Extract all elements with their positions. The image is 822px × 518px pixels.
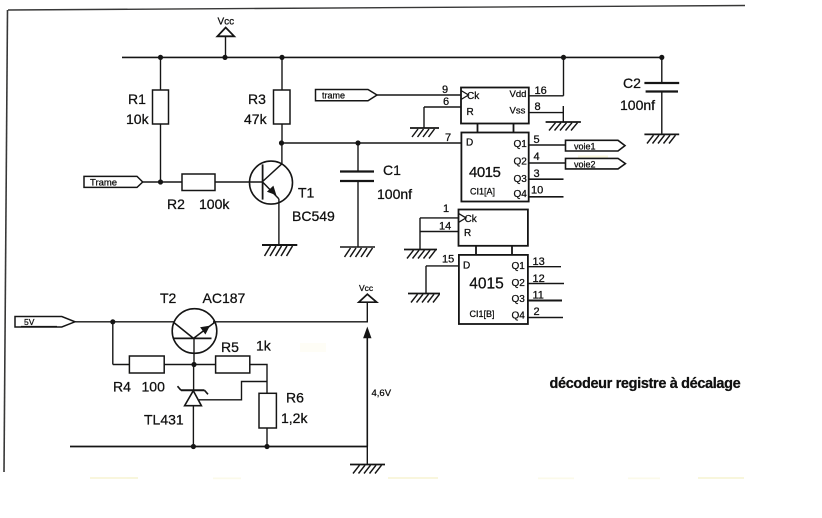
svg-text:R2: R2 [167, 196, 185, 212]
svg-text:100k: 100k [199, 196, 230, 212]
svg-text:voie1: voie1 [574, 142, 596, 152]
ground under T1 [262, 245, 297, 256]
svg-text:CI1[B]: CI1[B] [470, 309, 495, 319]
svg-text:Q1: Q1 [512, 261, 526, 272]
wire 5V to T2 [75, 321, 174, 323]
svg-text:1k: 1k [256, 338, 272, 354]
wire R5 to R6 [250, 365, 267, 394]
IC U1A control box (4015 clock/reset/power) [461, 88, 529, 133]
resistor R4 [129, 356, 164, 373]
resistor R1 [153, 57, 169, 182]
svg-text:6: 6 [443, 96, 449, 108]
wire Vcc rail [122, 56, 662, 58]
wire R4 to R5 [164, 364, 215, 366]
capacitor C2 [644, 57, 679, 134]
svg-text:16: 16 [535, 85, 547, 97]
wire pin 14 R (U1B) to ground [420, 218, 459, 250]
svg-text:4,6V: 4,6V [372, 388, 392, 399]
svg-text:Vcc: Vcc [218, 17, 235, 28]
wire pin 4 Q2 to voie2 [529, 162, 566, 164]
ground under C2 [644, 134, 679, 143]
svg-text:D: D [466, 138, 473, 149]
svg-text:Q4: Q4 [512, 311, 526, 322]
input flag trame (top) [316, 90, 378, 101]
svg-text:R4: R4 [113, 379, 131, 395]
wire pin 13 Q1 stub [528, 266, 561, 268]
svg-text:3: 3 [534, 168, 540, 180]
svg-text:TL431: TL431 [144, 412, 184, 428]
wire pin 6 to ground [424, 107, 461, 128]
svg-text:décodeur registre à décalage: décodeur registre à décalage [550, 376, 741, 392]
resistor R3 [274, 57, 291, 143]
svg-text:Vss: Vss [510, 106, 526, 117]
svg-text:14: 14 [439, 221, 451, 233]
svg-text:4015: 4015 [469, 276, 503, 293]
svg-text:Vdd: Vdd [510, 89, 527, 100]
svg-text:1: 1 [443, 203, 449, 215]
svg-text:C2: C2 [623, 75, 641, 91]
power symbol Vcc (bottom) [359, 283, 377, 302]
wire T2 collector to Vcc corner [213, 303, 367, 322]
svg-text:T2: T2 [160, 290, 177, 306]
resistor R5 [216, 356, 250, 373]
svg-text:BC549: BC549 [292, 208, 335, 224]
ground pin 15 [408, 294, 440, 303]
wire bottom rail to ground [366, 447, 368, 465]
ground bottom right [350, 465, 385, 474]
svg-text:Vcc: Vcc [359, 283, 374, 293]
junction rail/R3 [279, 55, 284, 60]
svg-text:D: D [463, 261, 470, 272]
svg-text:Q2: Q2 [514, 157, 528, 168]
wire bottom return rail [70, 446, 367, 448]
svg-text:47k: 47k [244, 111, 268, 127]
svg-text:8: 8 [535, 101, 541, 113]
ground pins 1/14 [404, 250, 437, 259]
svg-text:R: R [467, 107, 474, 118]
svg-text:1,2k: 1,2k [281, 410, 308, 426]
wire pin 12 Q2 stub [528, 283, 564, 285]
svg-text:Q1: Q1 [514, 139, 528, 150]
svg-text:CI1[A]: CI1[A] [470, 187, 495, 197]
svg-text:Trame: Trame [90, 177, 117, 188]
wire pin 10 Q4 stub [529, 196, 564, 198]
junction TL431/bottom rail [191, 444, 196, 449]
junction T1 collector node [279, 140, 284, 145]
junction rail/C2 [659, 55, 664, 60]
wire pin 3 Q3 stub [529, 178, 564, 180]
resistor R2 [182, 174, 215, 191]
svg-text:9: 9 [442, 84, 448, 96]
output flag voie1 [566, 140, 626, 151]
svg-text:100: 100 [142, 379, 166, 395]
svg-text:Q2: Q2 [512, 278, 526, 289]
svg-text:5V: 5V [24, 317, 35, 327]
wire R4 branch [113, 322, 130, 365]
svg-text:R1: R1 [128, 91, 146, 107]
IC U1B control box (4015 clock/reset) [459, 210, 528, 255]
junction rail/pin16 [561, 55, 566, 60]
svg-text:Ck: Ck [465, 214, 478, 225]
wire R2 to T1 base [215, 181, 262, 183]
wire pin 15 D (U1B) to ground [426, 266, 459, 294]
power symbol Vcc (top) [217, 17, 234, 58]
output flag voie2 [566, 158, 626, 169]
svg-text:100nf: 100nf [377, 186, 412, 202]
svg-text:100nf: 100nf [620, 97, 655, 113]
svg-text:T1: T1 [298, 185, 315, 201]
wire pin 5 Q1 to voie1 [529, 144, 566, 146]
IC U1B data box (4015 D / Q outputs) [459, 255, 528, 324]
wire trame to pin 9 [377, 94, 461, 96]
svg-text:10k: 10k [126, 111, 150, 127]
capacitor C1 [340, 143, 374, 247]
ground pin 6 [410, 128, 439, 137]
svg-text:AC187: AC187 [203, 290, 246, 306]
junction rail/R1 [158, 55, 163, 60]
svg-text:Q4: Q4 [514, 189, 528, 200]
wire TL431 reference to R5/R6 node [199, 382, 267, 400]
junction R1/Trame wire [158, 179, 163, 184]
ground pin 8 [546, 122, 581, 131]
junction rail/Vcc [222, 55, 227, 60]
wire Trame to R2 [143, 181, 182, 183]
svg-text:R: R [464, 228, 471, 239]
junction R6/bottom rail [264, 444, 269, 449]
IC U1A data box (4015 D / Q outputs) [461, 133, 528, 202]
wire pin 16 Vdd to rail [529, 57, 564, 95]
transistor T2 AC187 [172, 309, 217, 365]
wire pin 11 Q3 stub [528, 300, 562, 302]
svg-text:15: 15 [442, 254, 454, 266]
svg-text:7: 7 [445, 132, 451, 144]
transistor T1 BC549 [250, 143, 293, 245]
input flag Trame (left) [84, 176, 143, 188]
svg-text:voie2: voie2 [574, 159, 596, 169]
svg-text:R6: R6 [286, 390, 304, 406]
svg-text:4015: 4015 [469, 164, 501, 181]
svg-text:R3: R3 [248, 91, 266, 107]
junction T2 base node [191, 362, 196, 367]
input flag 5V [15, 317, 75, 328]
svg-text:13: 13 [533, 256, 545, 268]
svg-text:R5: R5 [221, 339, 239, 355]
svg-text:10: 10 [531, 185, 543, 197]
resistor R6 [259, 393, 276, 446]
svg-text:12: 12 [533, 273, 545, 285]
junction 5V/R4 branch [110, 319, 115, 324]
svg-text:2: 2 [534, 306, 540, 318]
svg-text:trame: trame [322, 90, 345, 100]
svg-text:Q3: Q3 [512, 294, 526, 305]
ground under C1 [340, 247, 375, 257]
wire pin 8 Vss to ground [529, 106, 564, 122]
measurement arrow 4,6V [363, 327, 371, 447]
svg-text:4: 4 [534, 151, 540, 163]
svg-text:Ck: Ck [467, 91, 480, 102]
wire pin 2 Q4 stub [528, 317, 563, 319]
wire pin 1 Ck (U1B) [420, 217, 459, 219]
regulator TL431 [178, 365, 209, 447]
svg-text:11: 11 [533, 290, 544, 302]
junction C1 top [355, 140, 360, 145]
wire collector node to D pin 7 [282, 142, 462, 144]
svg-text:Q3: Q3 [514, 174, 528, 185]
svg-text:C1: C1 [383, 162, 401, 178]
svg-text:5: 5 [534, 134, 540, 146]
